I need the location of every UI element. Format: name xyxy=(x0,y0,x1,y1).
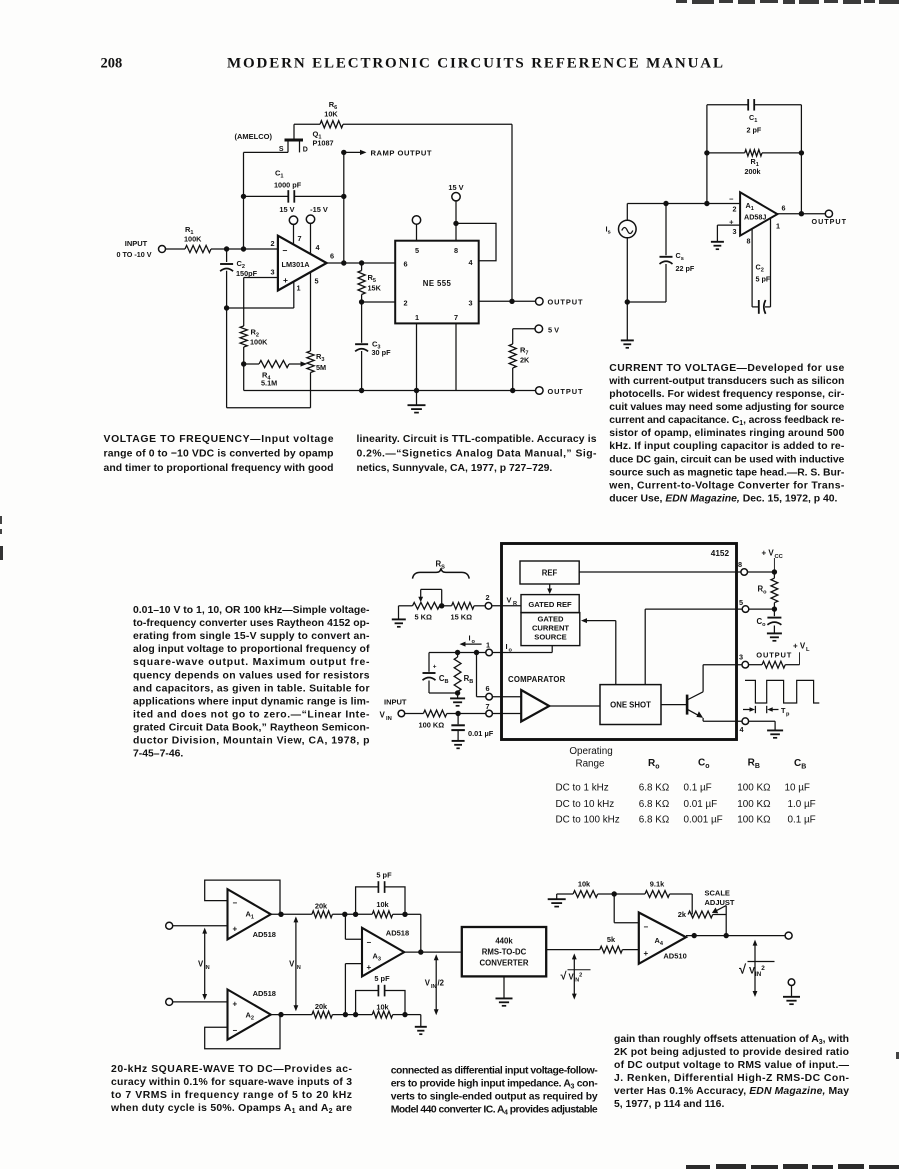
wire NE555 pin 3 to output xyxy=(479,300,536,302)
svg-text:−: − xyxy=(729,195,734,204)
svg-text:wen, Current-to-Voltage Conver: wen, Current-to-Voltage Converter for Tr… xyxy=(608,480,845,491)
ground for pot xyxy=(399,605,413,607)
wire R7 to ground rail xyxy=(512,368,514,391)
wire 5V to R7 xyxy=(513,328,535,330)
svg-text:7: 7 xyxy=(298,234,302,243)
svg-text:gain than roughly offsets atte: gain than roughly offsets attenuation of… xyxy=(614,1034,849,1046)
svg-text:verter Has 0.1% Accuracy, EDN: verter Has 0.1% Accuracy, EDN Magazine, … xyxy=(614,1086,849,1097)
node junction R5 bottom xyxy=(359,299,364,304)
wire output xyxy=(777,213,825,215)
pin 7 positive supply xyxy=(293,224,295,244)
resistor 10k upper xyxy=(356,913,373,915)
block 440k RMS-TO-DC converter xyxy=(462,927,546,976)
Vin arrow between inputs xyxy=(204,930,206,998)
svg-text:3: 3 xyxy=(733,227,737,236)
output terminal xyxy=(785,932,792,939)
svg-text:15 KΩ: 15 KΩ xyxy=(451,613,473,622)
wire to ground xyxy=(791,986,793,997)
svg-text:(AMELCO): (AMELCO) xyxy=(235,132,273,141)
svg-text:3: 3 xyxy=(469,299,473,308)
resistor R1 200k xyxy=(707,152,745,154)
wire pot to output rail xyxy=(713,914,727,916)
node junction R4 xyxy=(241,361,246,366)
resistor R5 xyxy=(361,263,363,271)
svg-text:grated Circuit Data Book,” Ray: grated Circuit Data Book,” Raytheon Semi… xyxy=(133,723,370,734)
svg-text:with current-output transducer: with current-output transducers such as … xyxy=(608,376,844,387)
svg-text:5, 1977, p 114 and 116.: 5, 1977, p 114 and 116. xyxy=(614,1099,724,1110)
svg-text:netics, Sunnyvale, CA, 1977, p: netics, Sunnyvale, CA, 1977, p 727–729. xyxy=(357,463,553,474)
svg-text:V: V xyxy=(507,596,512,605)
lower output terminal xyxy=(536,387,544,395)
svg-text:5.1M: 5.1M xyxy=(261,379,277,388)
output terminal xyxy=(536,298,544,306)
node junction R5 top xyxy=(359,260,364,265)
pin 4 terminal xyxy=(742,718,749,725)
svg-text:7: 7 xyxy=(454,313,458,322)
svg-text:DC to 1 kHz: DC to 1 kHz xyxy=(556,782,609,793)
svg-text:IN: IN xyxy=(386,716,392,722)
node junction pin1 line xyxy=(224,305,229,310)
svg-text:100K: 100K xyxy=(250,338,268,347)
svg-text:ers to provide high input impe: ers to provide high input impedance. A3 … xyxy=(391,1079,599,1091)
wire strap pin 8 to pin 4 xyxy=(456,223,496,260)
svg-text:erating from single 15-V suppl: erating from single 15-V supply to conve… xyxy=(133,631,370,642)
pot wiper xyxy=(725,906,727,936)
node junction C2 top xyxy=(224,246,229,251)
capacitor C1 xyxy=(244,195,289,197)
svg-text:ductor Division, Mountain View: ductor Division, Mountain View, CA, 1978… xyxy=(133,736,370,747)
wire to pin 2 xyxy=(474,605,485,607)
capacitor Cs 22 pF xyxy=(665,204,667,256)
svg-text:AD518: AD518 xyxy=(253,989,276,998)
op-amp A1 AD58J xyxy=(740,192,777,235)
ground xyxy=(711,241,724,243)
svg-text:15 V: 15 V xyxy=(448,183,463,192)
svg-text:208: 208 xyxy=(101,56,123,72)
svg-text:OUTPUT: OUTPUT xyxy=(812,217,847,226)
svg-text:REF: REF xyxy=(542,569,558,578)
wire pin 1 internal to current source xyxy=(492,652,552,654)
svg-text:R: R xyxy=(513,601,517,607)
sqrt Vin2 arrow left xyxy=(573,955,575,997)
svg-text:6: 6 xyxy=(330,252,334,261)
pin 7 terminal xyxy=(486,710,493,717)
node junction 5pF right upper xyxy=(402,912,407,917)
svg-text:p: p xyxy=(786,712,790,718)
wire pin 5 external xyxy=(749,608,775,610)
svg-text:RAMP OUTPUT: RAMP OUTPUT xyxy=(371,149,432,158)
capacitor 5 pF upper xyxy=(356,887,379,914)
capacitor CB electrolytic xyxy=(428,653,430,672)
svg-text:alog input voltage to proporti: alog input voltage to proportional frequ… xyxy=(133,644,370,655)
svg-text:0.1 µF: 0.1 µF xyxy=(788,815,816,826)
svg-text:100 KΩ: 100 KΩ xyxy=(737,815,770,826)
svg-text:2k: 2k xyxy=(678,910,687,919)
wire comparator output to one-shot xyxy=(549,705,600,707)
svg-text:6: 6 xyxy=(485,684,489,693)
wire source to gate rail xyxy=(244,151,289,153)
wire pin 1 external xyxy=(429,652,486,654)
left edge scan artifacts xyxy=(0,516,3,560)
wire pin 7 down to ground rail xyxy=(455,323,457,390)
node junction pin 8 / pin 4 strap xyxy=(453,221,458,226)
svg-text:of DC output voltage to RMS va: of DC output voltage to RMS value of inp… xyxy=(614,1060,850,1071)
svg-text:curacy within 0.1% for square-: curacy within 0.1% for square-wave input… xyxy=(111,1077,352,1088)
node junction 5pF left lower xyxy=(353,1012,358,1017)
wire pin 8 to Vcc node xyxy=(748,571,775,573)
resistor 10k feedback xyxy=(557,893,573,895)
ground xyxy=(416,391,418,405)
svg-text:9.1k: 9.1k xyxy=(650,879,665,888)
wire pin 5 internal to one-shot xyxy=(645,608,742,610)
svg-text:GATED: GATED xyxy=(537,615,564,624)
pin 5 control terminal xyxy=(416,224,418,241)
svg-text:V: V xyxy=(198,960,204,969)
IC 4152 outline xyxy=(502,544,737,740)
wire pin 2 internal xyxy=(492,605,521,607)
Vin arrow between rails xyxy=(295,918,297,1010)
resistor Ro xyxy=(773,572,775,578)
node junction RB bottom xyxy=(455,690,460,695)
svg-text:1: 1 xyxy=(297,284,301,293)
node junction 5pF left upper xyxy=(353,912,358,917)
square wave output waveform xyxy=(745,680,819,703)
svg-text:ADJUST: ADJUST xyxy=(705,898,735,907)
svg-text:OUTPUT: OUTPUT xyxy=(548,387,583,396)
svg-text:current and capacitance. C1, a: current and capacitance. C1, across feed… xyxy=(609,415,845,427)
svg-text:−: − xyxy=(644,923,649,932)
wire pin 3 to ground xyxy=(717,224,740,226)
ground xyxy=(457,693,459,698)
svg-text:AD510: AD510 xyxy=(663,952,686,961)
svg-text:5 pF: 5 pF xyxy=(374,974,390,983)
node junction A3 inverting tap xyxy=(342,912,347,917)
op-amp A1 AD518 xyxy=(228,889,271,939)
svg-text:−: − xyxy=(233,1026,238,1035)
node junction Cs top xyxy=(663,201,668,206)
capacitor C2 5 pF compensation xyxy=(751,229,753,307)
pin 4 negative supply xyxy=(310,223,312,254)
svg-text:D: D xyxy=(303,147,308,154)
svg-text:20k: 20k xyxy=(315,1002,328,1011)
input terminal VIN xyxy=(398,710,405,717)
svg-text:0.2%.—“Signetics Analog Data M: 0.2%.—“Signetics Analog Data Manual,” Si… xyxy=(357,449,598,460)
svg-text:+ V: + V xyxy=(762,549,775,558)
svg-text:8: 8 xyxy=(454,246,458,255)
svg-text:15K: 15K xyxy=(368,284,382,293)
svg-text:J. Renken, Differential High-Z: J. Renken, Differential High-Z RMS-DC Co… xyxy=(614,1073,850,1084)
resistor RB xyxy=(457,653,459,658)
ramp output arrow xyxy=(344,151,361,153)
svg-text:8: 8 xyxy=(747,237,751,246)
resistor 20k upper xyxy=(312,911,333,918)
wire pin1 rail to pin 6 xyxy=(476,653,478,697)
svg-text:3: 3 xyxy=(739,653,743,662)
node junction pin1 ground xyxy=(414,388,419,393)
svg-text:NE 555: NE 555 xyxy=(423,279,452,288)
svg-text:to-frequency converter uses Ra: to-frequency converter uses Raytheon 415… xyxy=(133,618,370,629)
svg-text:RMS-TO-DC: RMS-TO-DC xyxy=(482,948,527,957)
svg-text:6.8 KΩ: 6.8 KΩ xyxy=(639,782,669,793)
top edge scan artifacts xyxy=(676,0,899,4)
svg-text:+: + xyxy=(433,664,437,671)
wire to lower node xyxy=(332,1014,355,1016)
wire R6 feedback down to NE555 pin 3 xyxy=(511,124,513,301)
svg-text:2K pot being adjusted to provi: 2K pot being adjusted to provide desired… xyxy=(614,1047,849,1058)
svg-text:I: I xyxy=(506,642,508,651)
svg-text:0.1 µF: 0.1 µF xyxy=(684,782,712,793)
wire inverting input line xyxy=(627,203,740,205)
IC NE555 xyxy=(395,241,479,324)
svg-text:GATED REF: GATED REF xyxy=(528,600,572,609)
ground xyxy=(452,740,465,742)
svg-text:COMPARATOR: COMPARATOR xyxy=(508,675,566,684)
wire 9.1k to pot xyxy=(691,894,693,915)
bottom edge scan artifacts xyxy=(686,1164,899,1169)
svg-text:OUTPUT: OUTPUT xyxy=(756,651,791,660)
potentiometer 2k xyxy=(688,911,713,918)
wire Is bottom xyxy=(626,238,628,302)
right edge scan artifact xyxy=(896,1052,899,1059)
svg-text:1000 pF: 1000 pF xyxy=(274,181,302,190)
resistor 20k lower xyxy=(312,1011,333,1018)
svg-text:10k: 10k xyxy=(376,900,389,909)
svg-text:CONVERTER: CONVERTER xyxy=(480,959,529,968)
svg-text:3: 3 xyxy=(270,268,274,277)
node junction feedback tap xyxy=(509,299,514,304)
svg-text:6: 6 xyxy=(782,204,786,213)
svg-text:LM301A: LM301A xyxy=(282,260,311,269)
svg-text:2: 2 xyxy=(485,593,489,602)
pin 8 terminal xyxy=(741,569,748,576)
svg-text:+: + xyxy=(233,925,238,934)
node junction inverting input xyxy=(704,201,709,206)
svg-text:range of 0 to −10 VDC is conve: range of 0 to −10 VDC is converted by op… xyxy=(104,449,334,460)
svg-text:CC: CC xyxy=(775,554,784,560)
svg-text:CURRENT: CURRENT xyxy=(532,624,569,633)
svg-text:0 TO -10 V: 0 TO -10 V xyxy=(116,250,151,259)
wire pin 6 internal xyxy=(492,696,521,698)
svg-text:0.01 µF: 0.01 µF xyxy=(684,799,718,810)
svg-text:+: + xyxy=(367,963,372,972)
wire A3 inverting input xyxy=(345,938,362,940)
node junction Vcc xyxy=(772,569,777,574)
output pull-up resistor xyxy=(749,664,762,666)
svg-text:/2: /2 xyxy=(438,979,445,988)
resistor R6 xyxy=(294,123,320,125)
svg-text:connected as differential inpu: connected as differential input voltage-… xyxy=(391,1066,599,1077)
svg-text:INPUT: INPUT xyxy=(384,698,407,707)
transistor output NPN xyxy=(686,695,689,715)
block ONE SHOT xyxy=(600,685,661,725)
node junction C3 ground xyxy=(359,388,364,393)
wire op-amp output to NE555 pin 6 xyxy=(327,262,396,264)
svg-text:6: 6 xyxy=(404,260,408,269)
potentiometer 5 K xyxy=(413,602,440,609)
svg-text:DC to 100 kHz: DC to 100 kHz xyxy=(556,815,620,826)
svg-text:square-wave output. Maximum ou: square-wave output. Maximum output fre- xyxy=(133,657,370,668)
node junction A2 output xyxy=(278,1012,283,1017)
node junction 5pF right lower xyxy=(402,1012,407,1017)
svg-text:duce DC gain, circuit can be u: duce DC gain, circuit can be used with i… xyxy=(609,454,844,465)
wire bottom loop R3 to left rail xyxy=(227,407,311,409)
node junction wiper xyxy=(439,603,444,608)
svg-text:Model 440 converter IC. A4 pro: Model 440 converter IC. A4 provides adju… xyxy=(391,1105,598,1117)
svg-text:100 KΩ: 100 KΩ xyxy=(419,720,445,729)
svg-text:2: 2 xyxy=(733,205,737,214)
ground xyxy=(415,1026,427,1028)
output terminal xyxy=(825,210,832,217)
node junction gate rail xyxy=(241,246,246,251)
wire gate rail up from input line xyxy=(243,152,245,249)
current source Is xyxy=(626,204,628,221)
svg-text:IN: IN xyxy=(295,965,300,971)
svg-text:5 V: 5 V xyxy=(548,325,559,334)
node junction R1 right xyxy=(799,150,804,155)
svg-text:10 µF: 10 µF xyxy=(785,782,810,793)
node junction output xyxy=(692,933,697,938)
svg-text:100 KΩ: 100 KΩ xyxy=(737,799,770,810)
node junction C1 left xyxy=(241,194,246,199)
block GATED CURRENT SOURCE xyxy=(521,613,580,646)
svg-text:7: 7 xyxy=(485,702,489,711)
ground xyxy=(783,996,800,998)
svg-text:to 7 VRMS in frequency range o: to 7 VRMS in frequency range of 5 to 20 … xyxy=(111,1090,352,1101)
svg-text:6.8 KΩ: 6.8 KΩ xyxy=(639,815,669,826)
resistor 10k lower xyxy=(356,1014,373,1016)
svg-text:4152: 4152 xyxy=(711,549,730,558)
svg-text:AD518: AD518 xyxy=(253,930,276,939)
svg-text:cuit values may need some adju: cuit values may need some adjusting for … xyxy=(609,402,844,413)
svg-text:20-kHz SQUARE-WAVE TO DC—Provi: 20-kHz SQUARE-WAVE TO DC—Provides ac- xyxy=(111,1064,353,1075)
svg-text:source such as magnetic tape h: source such as magnetic tape head.—R. S.… xyxy=(609,467,845,478)
svg-text:10k: 10k xyxy=(376,1002,389,1011)
svg-text:ited and does not go to zero.—: ited and does not go to zero.—“Linear In… xyxy=(133,709,370,720)
svg-text:when duty cycle is 50%. Opamps: when duty cycle is 50%. Opamps A1 and A2… xyxy=(110,1103,352,1115)
comparator xyxy=(521,690,549,722)
wire converter ground xyxy=(503,976,505,997)
lower output wire xyxy=(513,390,536,392)
svg-text:photocells. For widest frequen: photocells. For widest frequency respons… xyxy=(609,389,845,400)
svg-text:V: V xyxy=(289,960,295,969)
pin 2 terminal xyxy=(485,603,492,610)
svg-text:sistor of opamp, eliminates ri: sistor of opamp, eliminates ringing arou… xyxy=(609,428,844,439)
svg-text:2: 2 xyxy=(270,239,274,248)
resistor 100 K input xyxy=(423,710,446,717)
wire A4 inverting input xyxy=(613,894,615,923)
capacitor C1 feedback xyxy=(707,104,748,106)
wire emitter to pin 4 xyxy=(703,720,742,722)
input terminal xyxy=(159,246,166,253)
wire R1 to op-amp pin 2 xyxy=(211,248,278,250)
input terminal upper xyxy=(166,922,173,929)
svg-text:100K: 100K xyxy=(184,235,202,244)
wire A3 output xyxy=(404,951,462,953)
wire op-amp pin 5 to R3 xyxy=(310,272,312,351)
svg-text:linearity. Circuit is TTL-comp: linearity. Circuit is TTL-compatible. Ac… xyxy=(357,434,597,445)
svg-text:5 pF: 5 pF xyxy=(756,275,771,284)
5 V terminal xyxy=(535,325,543,333)
op-amp A3 AD518 xyxy=(362,928,404,977)
node junction feedback xyxy=(341,260,346,265)
svg-text:200k: 200k xyxy=(745,167,761,176)
wire pin 7 internal xyxy=(492,713,521,715)
svg-text:OUTPUT: OUTPUT xyxy=(548,298,583,307)
ground xyxy=(767,632,782,634)
svg-text:10k: 10k xyxy=(578,879,591,888)
svg-text:V: V xyxy=(425,979,431,988)
svg-text:1: 1 xyxy=(486,640,490,649)
node junction Ro bottom xyxy=(772,606,777,611)
svg-text:0.01–10 V to 1, 10, OR 100 kHz: 0.01–10 V to 1, 10, OR 100 kHz—Simple vo… xyxy=(133,605,370,616)
wire collector to pin 3 xyxy=(703,664,742,666)
ground for 10k xyxy=(556,894,558,899)
svg-text:5: 5 xyxy=(739,598,743,607)
op-amp U1 LM301A xyxy=(278,236,327,291)
wire input to R1 xyxy=(166,248,186,250)
svg-text:AD58J: AD58J xyxy=(744,213,766,222)
node junction R1 left xyxy=(704,150,709,155)
capacitor 5 pF lower xyxy=(356,991,379,1015)
svg-text:L: L xyxy=(806,647,810,653)
svg-text:and timer to proportional freq: and timer to proportional frequency with… xyxy=(104,463,334,474)
svg-text:5 KΩ: 5 KΩ xyxy=(415,613,433,622)
wire to A1 xyxy=(173,925,228,927)
svg-text:AD518: AD518 xyxy=(386,928,409,937)
svg-text:MODERN ELECTRONIC CIRCUITS REF: MODERN ELECTRONIC CIRCUITS REFERENCE MAN… xyxy=(227,56,723,72)
svg-text:and capacitors, as given in ta: and capacitors, as given in table. Suita… xyxy=(133,683,370,694)
svg-text:ducer Use, EDN Magazine, Dec.: ducer Use, EDN Magazine, Dec. 15, 1972, … xyxy=(609,493,837,504)
svg-text:verts to single-ended output a: verts to single-ended output as required… xyxy=(391,1092,598,1103)
pulse width Tp marks xyxy=(743,709,752,711)
wire A3 non-inverting input xyxy=(345,963,362,965)
svg-text:V: V xyxy=(380,711,386,720)
wire to node xyxy=(332,913,355,915)
wire to ground xyxy=(405,1014,421,1016)
svg-text:+: + xyxy=(644,949,649,958)
A2 feedback loop xyxy=(205,1015,280,1049)
svg-text:P1087: P1087 xyxy=(313,139,334,148)
A1 feedback loop xyxy=(205,880,280,914)
svg-text:-15 V: -15 V xyxy=(310,205,328,214)
svg-text:15 V: 15 V xyxy=(279,205,294,214)
svg-text:SOURCE: SOURCE xyxy=(534,633,567,642)
pin 1 terminal Io xyxy=(486,649,493,656)
svg-text:−: − xyxy=(283,246,288,256)
node junction RB top xyxy=(455,650,460,655)
wire drain node down to op-amp output xyxy=(343,152,345,263)
svg-text:8: 8 xyxy=(738,560,742,569)
svg-text:440k: 440k xyxy=(495,937,513,946)
node junction drain / ramp output xyxy=(341,150,346,155)
node junction A1 output xyxy=(278,912,283,917)
wire to ground xyxy=(626,302,628,340)
potentiometer R3 xyxy=(307,351,314,373)
input terminal lower xyxy=(166,998,173,1005)
capacitor C3 xyxy=(361,302,363,343)
wire to A2 xyxy=(173,1001,228,1003)
svg-text:10K: 10K xyxy=(324,110,338,119)
wire node to A3 output rail xyxy=(405,913,421,915)
svg-text:1: 1 xyxy=(415,313,419,322)
Vin/2 arrow xyxy=(435,956,437,1014)
wire pot to 15K xyxy=(440,605,452,607)
transistor Q1 P-channel JFET xyxy=(285,139,304,142)
svg-text:6.8 KΩ: 6.8 KΩ xyxy=(639,799,669,810)
svg-text:VOLTAGE TO FREQUENCY—Input vol: VOLTAGE TO FREQUENCY—Input voltage xyxy=(104,434,334,445)
resistor R7 xyxy=(509,344,516,368)
svg-text:5: 5 xyxy=(415,246,419,255)
